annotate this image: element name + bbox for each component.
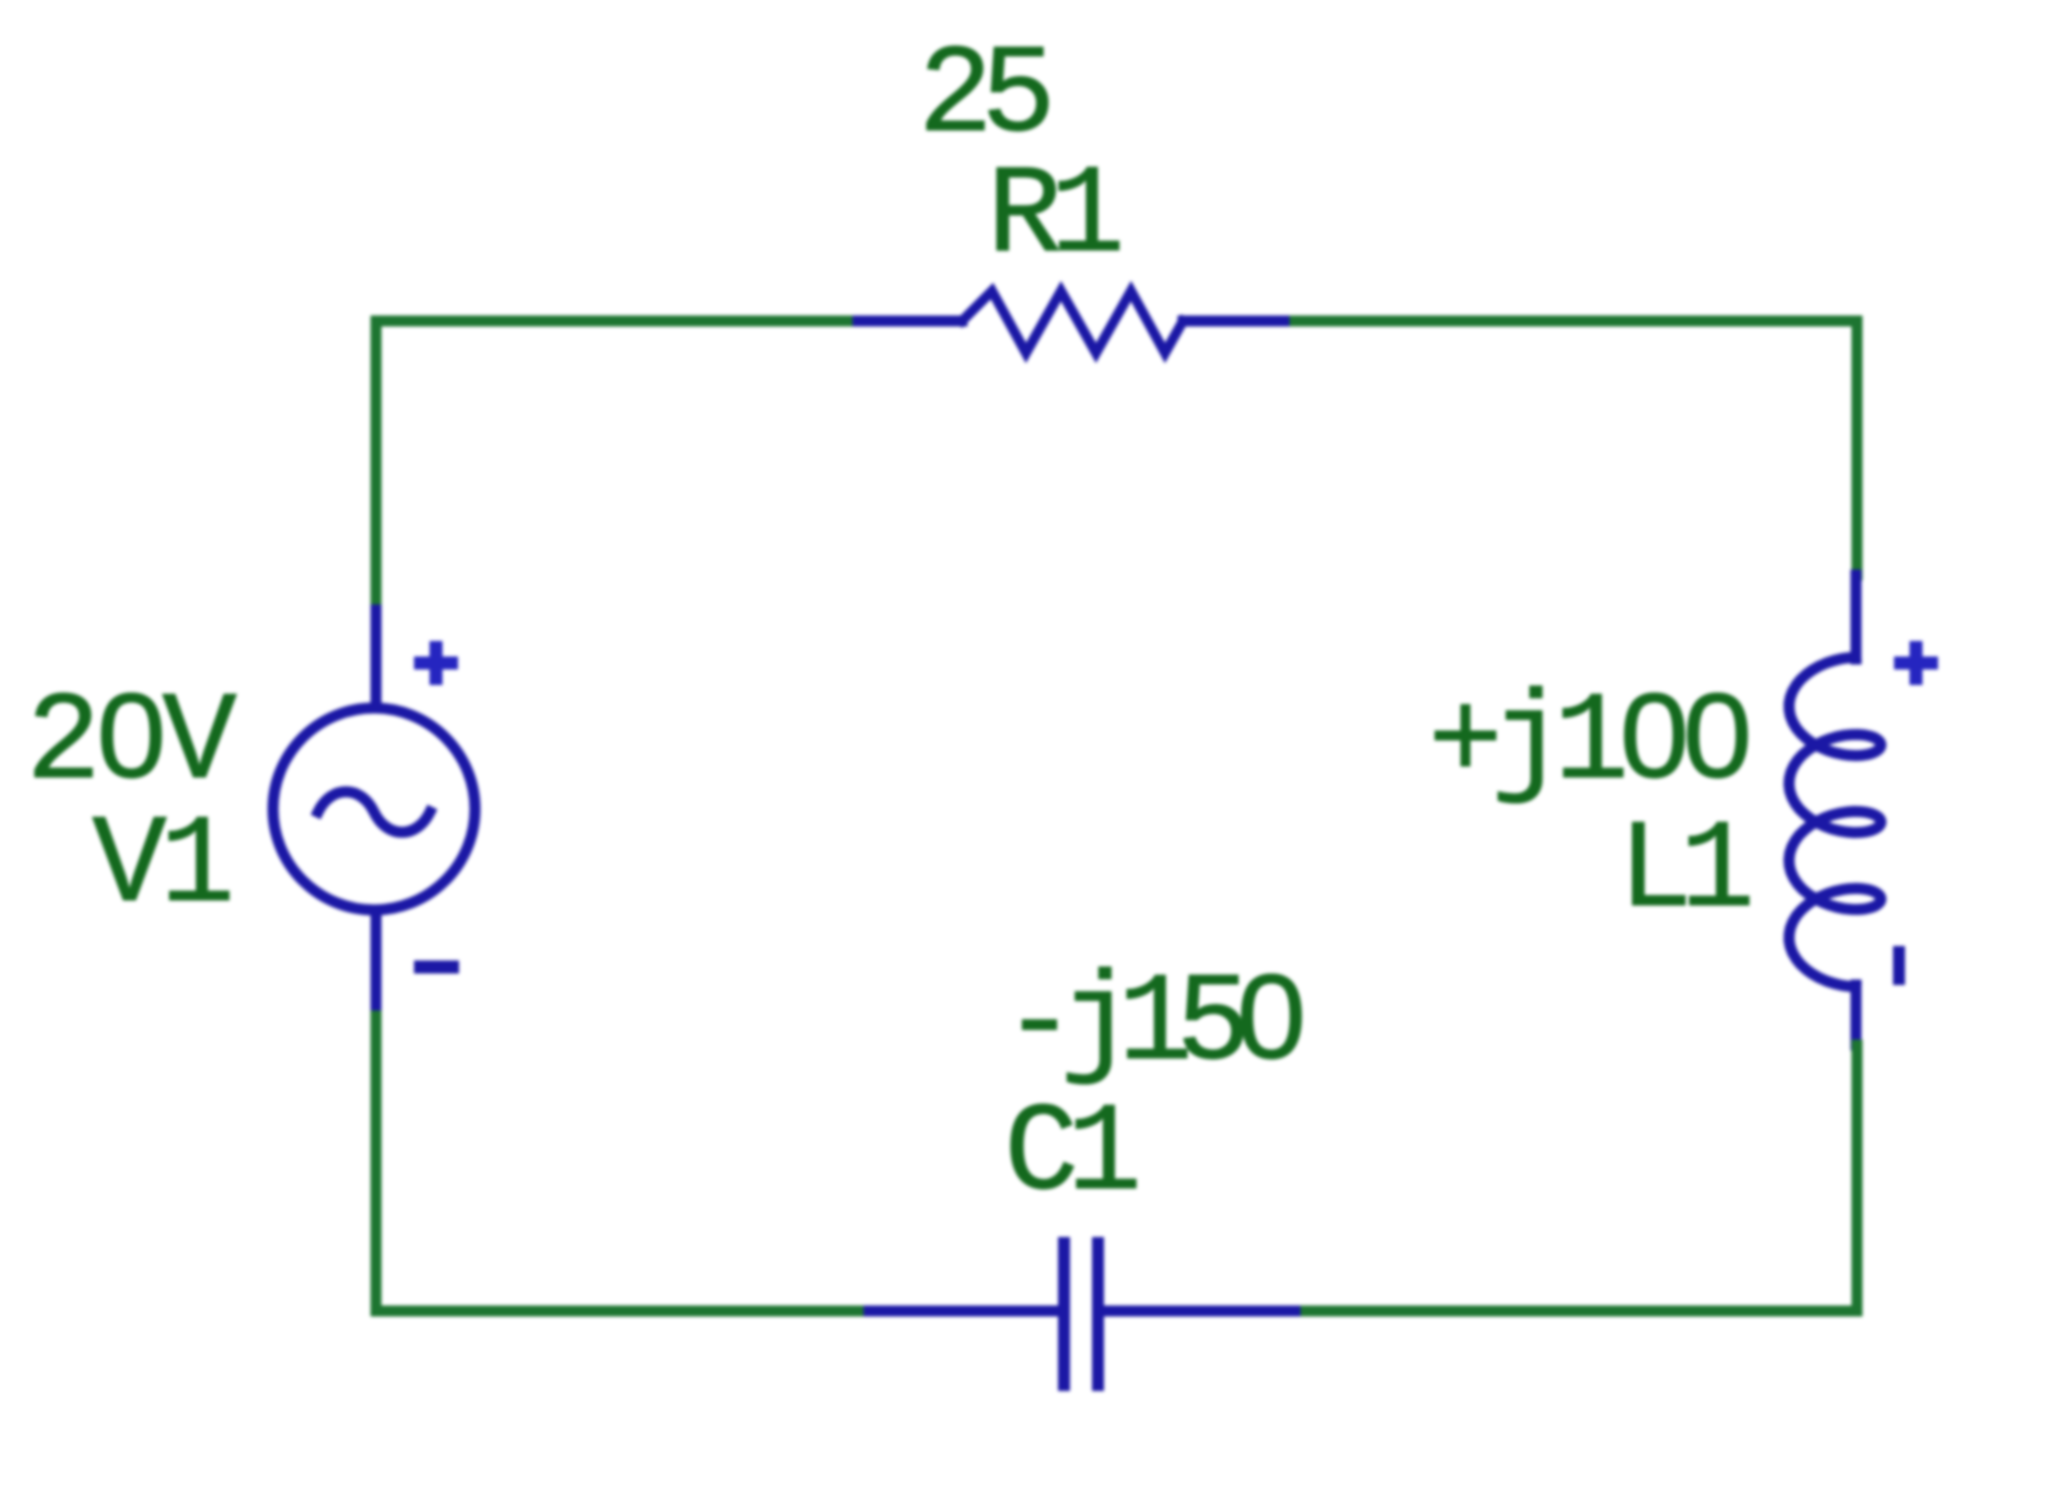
minus sign at inductor (vertical tick)	[1893, 946, 1905, 985]
svg-text:V1: V1	[92, 796, 235, 938]
svg-text:C1: C1	[1004, 1084, 1142, 1226]
voltage source V1 circle	[273, 708, 475, 910]
capacitor C1 right plate	[1092, 1243, 1104, 1385]
wire bottom-left corner (green)	[376, 1005, 858, 1311]
svg-text:L1: L1	[1618, 801, 1755, 943]
wire resistor left lead (blue)	[858, 316, 962, 327]
wire inductor bottom pin (blue)	[1851, 985, 1862, 1045]
capacitor C1 left plate	[1058, 1243, 1070, 1385]
minus sign at source	[414, 961, 459, 974]
wire capacitor left lead (blue)	[858, 1306, 1058, 1317]
resistor R1 zigzag	[962, 291, 1183, 353]
wire source top pin (blue)	[371, 610, 382, 708]
white covers for dotted zeros	[118, 716, 1731, 1033]
wire top-left corner (green)	[376, 321, 858, 610]
svg-text:R1: R1	[987, 146, 1125, 288]
wire capacitor right lead (blue)	[1104, 1306, 1295, 1317]
wire resistor right lead (blue)	[1183, 316, 1295, 327]
wire source bottom pin (blue)	[371, 911, 382, 1005]
plus sign at source	[414, 641, 458, 685]
inductor L1 coil	[1789, 657, 1881, 986]
sine wave inside source	[318, 792, 430, 833]
wire inductor to bottom-right corner (green)	[1295, 1045, 1857, 1311]
wire resistor to top-right corner (green)	[1295, 321, 1857, 575]
wire inductor top pin (blue)	[1851, 575, 1862, 659]
plus sign at inductor	[1894, 641, 1938, 685]
